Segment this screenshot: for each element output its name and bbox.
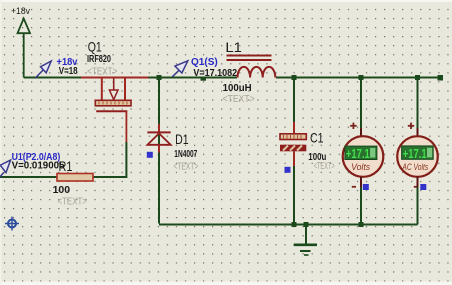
ground (294, 225, 317, 255)
svg-text:<TEXT>: <TEXT> (58, 195, 87, 207)
capacitor C1 (280, 134, 306, 152)
probe Q1(S) arrow (172, 61, 187, 77)
svg-text:+18v: +18v (11, 6, 30, 16)
svg-text:V=17.1082: V=17.1082 (193, 68, 237, 79)
svg-text:V=18: V=18 (59, 66, 78, 77)
svg-text:D1: D1 (175, 131, 189, 147)
svg-text:<TEXT>: <TEXT> (223, 93, 255, 105)
svg-text:IRF820: IRF820 (87, 53, 111, 65)
transistor Q1 (95, 78, 131, 142)
wire V2 branch lower (417, 177, 419, 225)
probe +18v arrow (36, 61, 52, 78)
inductor L1 core bars (227, 56, 272, 61)
resistor R1 (57, 174, 93, 182)
node rail end dot (438, 75, 444, 81)
svg-text:AC Volts: AC Volts (402, 162, 429, 172)
svg-text:<TEXT>: <TEXT> (174, 160, 199, 172)
svg-text:Q1: Q1 (88, 38, 102, 54)
wire C1 branch lower (293, 151, 295, 223)
node junction bottom C1 (292, 222, 297, 227)
svg-text:+17.1: +17.1 (403, 147, 427, 161)
label V2 plus (408, 125, 414, 127)
voltmeter V2 (397, 136, 438, 177)
wire V2 branch upper (417, 78, 419, 136)
marker C1 origin (285, 167, 291, 173)
svg-text:Q1(S): Q1(S) (191, 57, 218, 68)
svg-text:V=0.019005: V=0.019005 (12, 160, 65, 171)
wire top rail (24, 77, 237, 79)
svg-text:1N4007: 1N4007 (174, 148, 197, 160)
wire C1 branch upper (293, 78, 295, 134)
marker D1 origin (147, 152, 153, 158)
probe U1 arrow (0, 160, 11, 177)
marker V1 origin (363, 184, 369, 190)
diode D1 (147, 132, 170, 144)
label V2 minus (414, 186, 418, 188)
marker crosshair (5, 217, 19, 231)
voltmeter V1 (343, 136, 384, 177)
wire V1 branch upper (360, 78, 362, 136)
label V1 minus (352, 186, 356, 188)
svg-text:<TEXT>: <TEXT> (314, 160, 335, 172)
marker V2 origin (420, 184, 426, 190)
power terminal +18v (18, 19, 31, 78)
wire resistor right to gate (93, 142, 126, 177)
node junction bottom V1 (359, 222, 364, 227)
svg-text:+17.1: +17.1 (346, 147, 370, 161)
svg-text:L1: L1 (225, 39, 242, 55)
svg-text:R1: R1 (59, 158, 73, 174)
wire Q1 pin segment (red) (81, 77, 149, 79)
node junction V1 top (359, 75, 364, 80)
node junction D1 top (157, 75, 162, 80)
wire resistor left (0, 176, 57, 178)
wire D1 branch (158, 78, 160, 224)
node junction C1 top (292, 75, 297, 80)
diode D1 pins (158, 124, 160, 133)
label V1 plus (350, 125, 356, 127)
probe Q1(S) tap (201, 78, 207, 80)
node junction V2 top (415, 75, 420, 80)
wire bottom rail (159, 224, 418, 226)
inductor L1 coil (238, 67, 276, 78)
svg-text:Volts: Volts (351, 162, 370, 172)
svg-text:<TEXT>: <TEXT> (87, 66, 117, 78)
node junction bottom ground (304, 222, 309, 227)
wire top rail right of L1 (276, 77, 440, 79)
svg-text:C1: C1 (310, 130, 324, 146)
wire V1 branch lower (360, 177, 362, 224)
